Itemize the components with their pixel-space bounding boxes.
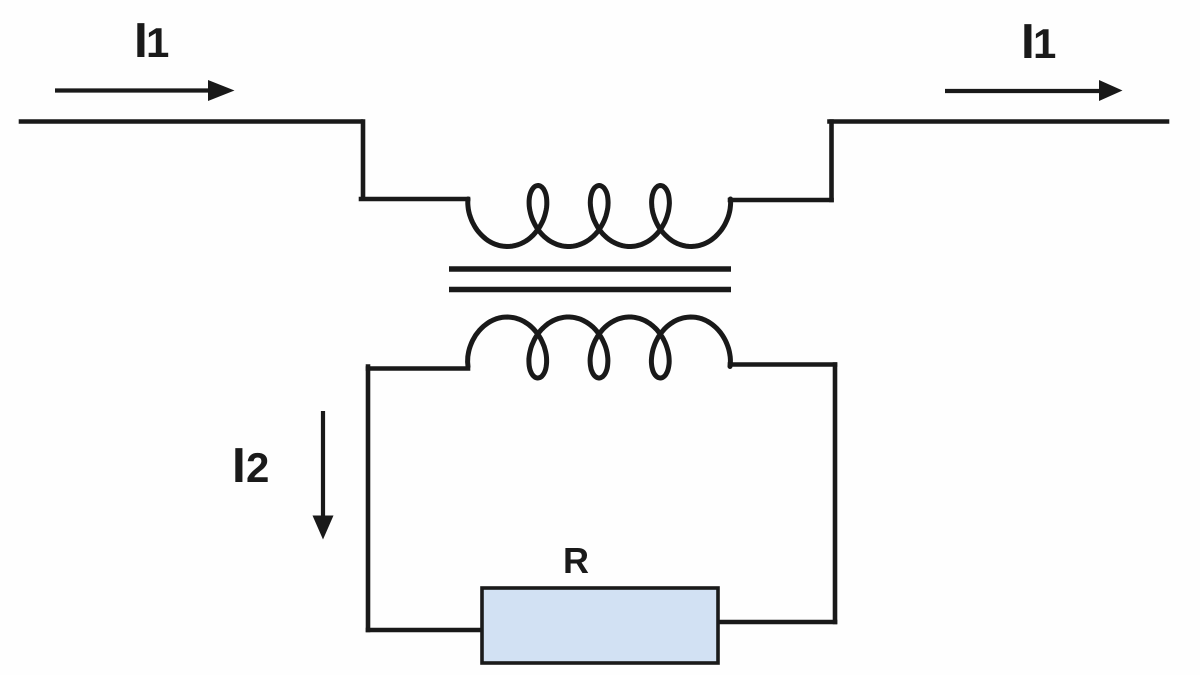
- svg-text:R: R: [563, 540, 589, 581]
- svg-text:2: 2: [246, 444, 269, 491]
- svg-text:1: 1: [146, 19, 169, 66]
- svg-text:1: 1: [1033, 20, 1056, 67]
- svg-text:I: I: [232, 438, 246, 493]
